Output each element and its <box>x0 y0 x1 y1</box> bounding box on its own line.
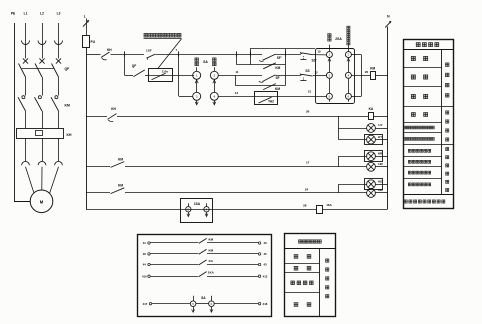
aux contact KA <box>199 260 207 265</box>
2SA tie vertical <box>361 55 363 97</box>
aux row KM wire right <box>207 242 258 244</box>
button SF (local start) <box>263 75 276 82</box>
svg-text:KA: KA <box>369 107 374 111</box>
KM main contact L1 <box>22 96 25 99</box>
remote lamp box HY2 <box>365 135 383 145</box>
QF pole contact L3 <box>52 64 59 78</box>
wire lamp HR1 to N <box>375 156 387 158</box>
svg-text:KH: KH <box>107 48 112 52</box>
svg-text:41: 41 <box>143 241 147 245</box>
svg-text:SF': SF' <box>277 56 282 60</box>
wire L2 top drop <box>42 23 44 44</box>
svg-text:KM: KM <box>208 237 213 241</box>
mode table row line y=194 full <box>403 194 453 196</box>
lamp HY2 <box>367 135 376 144</box>
svg-text:11: 11 <box>235 70 239 74</box>
2SA stub below col2 <box>348 99 350 102</box>
svg-text:KM: KM <box>370 67 375 71</box>
left control rail <box>86 48 88 210</box>
QF pole contact L2 <box>35 64 42 78</box>
SA stub above col a <box>196 67 198 71</box>
svg-text:L: L <box>84 14 86 18</box>
SA arrow col b <box>213 80 216 83</box>
KM main contact L2 <box>38 96 41 99</box>
wire 11: SA contact2 to SF <box>218 75 262 77</box>
wire row3 left <box>86 166 110 168</box>
wire row2 left <box>86 116 107 118</box>
lamp HY1 <box>367 124 376 133</box>
SA contact 2 <box>210 71 218 79</box>
wire L1 top drop <box>25 23 27 44</box>
signal table header text <box>298 240 301 243</box>
group right vertical <box>285 49 287 86</box>
wire PE to motor <box>14 201 30 203</box>
remote lamp box HR1 <box>365 151 383 162</box>
svg-text:SA: SA <box>203 60 208 64</box>
svg-text:17: 17 <box>306 161 310 165</box>
signal table row line 2 <box>284 272 319 274</box>
mode table row7 text <box>408 149 411 152</box>
aux row SA wire left <box>152 303 191 305</box>
aux row KA wire left <box>150 264 198 266</box>
wire lamp HR2 to N <box>375 166 387 168</box>
contact KM holding (remote) <box>263 63 276 69</box>
svg-text:KM: KM <box>275 66 280 70</box>
mode table bottom row text <box>404 200 407 203</box>
QF aux branch vertical <box>124 54 126 75</box>
svg-text:QF: QF <box>65 67 70 71</box>
QF linkage bar <box>22 68 54 70</box>
wire lamp HY1 to N <box>375 128 387 130</box>
wire L1 breaker to contactor <box>25 77 27 96</box>
svg-text:45: 45 <box>263 252 267 256</box>
wire lamp HY2 to N <box>375 139 387 141</box>
button SF' (remote start) on rail <box>263 54 276 60</box>
top control rail segment 5 <box>313 54 327 56</box>
coil KM <box>371 72 376 80</box>
2SA header label col2 <box>347 26 350 29</box>
remote group bypass wire <box>250 48 315 50</box>
QF aux contact <box>125 75 134 77</box>
aux SA stub below 5 <box>193 307 195 312</box>
damper box YA2 <box>255 92 278 105</box>
wire L2 breaker to contactor <box>42 77 44 96</box>
selector 2SA box <box>316 49 355 104</box>
2SA contact 2 <box>345 52 351 58</box>
wire row4 left <box>86 192 110 194</box>
aux row KM right terminal <box>258 253 260 255</box>
wire 14: SA contact4 to YA2 <box>218 96 254 98</box>
breaker stab L1 <box>22 41 30 45</box>
2SA stub above col2 <box>348 45 350 52</box>
aux contact 1KA <box>199 272 207 277</box>
wire KM coil to N rail <box>375 75 387 77</box>
wire 21: YA2 to 2SA contact 5 <box>277 96 326 98</box>
svg-text:43: 43 <box>263 263 267 267</box>
svg-text:SF: SF <box>275 76 279 80</box>
svg-text:HG: HG <box>378 188 383 192</box>
signal table row3 text <box>291 281 295 285</box>
aux contact box frame <box>138 235 272 317</box>
1SA stub above 5 <box>188 203 190 206</box>
svg-text:L3: L3 <box>57 12 61 16</box>
svg-text:FU: FU <box>91 40 96 44</box>
aux SA stub above 5 <box>193 296 195 301</box>
motor stab L1 <box>22 161 30 165</box>
svg-text:KH: KH <box>111 107 116 111</box>
SA contact 4 <box>210 92 218 100</box>
motor stab L3 <box>55 161 63 165</box>
wire L2 stab to breaker <box>42 45 44 59</box>
wire PE vertical <box>14 23 16 201</box>
bottom rail left segment <box>86 209 316 211</box>
aux SA contact 5 <box>190 301 196 307</box>
SA stub below col b <box>214 100 216 104</box>
mode table row1 text <box>411 56 415 60</box>
lamp HR1 <box>367 152 376 161</box>
time relay box t10s <box>149 69 173 82</box>
aux SA stub below 6 <box>211 307 213 312</box>
breaker stab L3 <box>55 41 63 45</box>
svg-text:410: 410 <box>142 274 147 278</box>
SA contact 1 <box>193 71 201 79</box>
mode table right col split 1 <box>441 106 453 108</box>
selector 1SA box <box>181 199 213 223</box>
mode table row2 text <box>411 75 415 79</box>
wire v2 corner to SA contact 3 <box>179 96 192 98</box>
wire L1 contactor to overload <box>25 111 27 129</box>
thermal overload KH box <box>17 129 64 139</box>
fuse FU <box>83 36 90 48</box>
svg-text:SA: SA <box>201 296 206 300</box>
svg-text:21: 21 <box>308 90 312 94</box>
svg-text:L1: L1 <box>24 12 28 16</box>
signal table frame <box>285 234 336 317</box>
wire L2 overload to motor stab <box>42 139 44 162</box>
wire lamp HG1 to N <box>375 184 387 186</box>
mode table row8 text <box>408 160 411 163</box>
remote lamp box HG1 <box>365 179 383 190</box>
signal table row1 text <box>294 255 298 259</box>
signal table row4 text <box>294 303 298 307</box>
wire through time relay to SA1 <box>148 75 194 77</box>
signal table row line 1 <box>284 263 319 265</box>
button SS (local stop) <box>300 73 303 75</box>
mode table right col split 2 <box>441 144 453 146</box>
svg-text:46: 46 <box>143 252 147 256</box>
contact KM aux row3 <box>111 162 125 168</box>
wire L1 overload to motor stab <box>25 139 27 162</box>
aux row SA wire right <box>214 303 258 305</box>
lamp riser row2 <box>338 116 340 140</box>
lamp HG2 <box>367 189 376 198</box>
wire row3 main <box>125 166 367 168</box>
svg-text:418: 418 <box>263 302 268 306</box>
svg-text:40: 40 <box>263 241 267 245</box>
aux SA contact 6 <box>209 301 215 307</box>
mode table row line y=144.9 <box>403 144 441 146</box>
svg-text:KH: KH <box>67 133 72 137</box>
N feeder isolating slash <box>385 22 390 27</box>
svg-text:HG: HG <box>378 180 383 184</box>
aux SA wire mid <box>196 303 209 305</box>
junction tick x=236.7 <box>236 51 238 56</box>
svg-text:44: 44 <box>143 263 147 267</box>
2SA contact 3 <box>326 72 332 78</box>
QF pole contact L1 <box>19 64 26 78</box>
signal table row2 text <box>294 266 298 270</box>
svg-text:KM: KM <box>118 184 123 188</box>
KM remote branch vertical <box>236 54 238 65</box>
wire L3 breaker to contactor <box>58 77 60 96</box>
mode table header text <box>416 43 420 47</box>
mode table row line y=106.9 <box>403 106 441 108</box>
wire L label to fuse <box>86 19 88 36</box>
svg-text:1SA: 1SA <box>194 202 201 206</box>
mode table row line y=156.6 <box>403 156 441 158</box>
KM remote branch wire <box>237 64 286 66</box>
svg-text:20: 20 <box>365 70 369 74</box>
mode table vcol text 3 <box>446 147 449 150</box>
aux row KA wire right <box>207 264 258 266</box>
1SA contact 5 <box>186 207 191 212</box>
SA stub mid col b <box>214 80 216 93</box>
junction tick x=285.5 <box>285 51 287 56</box>
svg-text:L2: L2 <box>40 12 44 16</box>
2SA stub above col1 <box>329 45 331 52</box>
2SA contact 4 <box>345 72 351 78</box>
wire motor lead left <box>26 167 34 193</box>
KM holding branch vertical (local) <box>235 75 237 85</box>
top control rail segment 1 <box>86 54 101 56</box>
wire L2 contactor to overload <box>42 111 44 129</box>
aux row KM right terminal <box>258 242 260 244</box>
wire motor lead mid <box>41 167 43 190</box>
QF pole terminal X L2 <box>39 58 44 63</box>
signal table header rule <box>284 248 335 250</box>
rail-to-SA branch vertical v2 <box>178 54 180 96</box>
mode table row3 text <box>411 94 415 98</box>
wire lamp HG2 to N <box>375 192 387 194</box>
mode table row line y=122.1 <box>403 122 441 124</box>
KM main contact L3 <box>55 96 58 99</box>
aux contact KM <box>199 238 207 243</box>
L feeder isolating slash <box>83 21 88 26</box>
svg-text:413: 413 <box>263 274 268 278</box>
wire L3 top drop <box>58 23 60 44</box>
mode table outer frame <box>404 40 454 209</box>
1SA stub below 5 <box>188 212 190 216</box>
wire L3 overload to motor stab <box>58 139 60 162</box>
SA position label col1 <box>195 58 199 62</box>
1SA stub below 6 <box>206 212 208 216</box>
wire to lamp HG1 <box>338 184 366 186</box>
svg-text:SS': SS' <box>311 59 316 63</box>
thermal contact KH on top rail <box>101 52 110 58</box>
junction tick x=124.5 <box>124 51 126 56</box>
svg-text:HY: HY <box>378 135 382 139</box>
wire to lamp HY1 <box>338 128 366 130</box>
aux contact KM <box>199 249 207 254</box>
signal table vcol text <box>326 259 329 262</box>
button SS' (remote stop) on rail <box>300 52 303 54</box>
mode table row line y=178.3 <box>403 178 441 180</box>
svg-text:1SF: 1SF <box>146 49 152 53</box>
SA contact 3 <box>193 92 201 100</box>
wire to lamp HY2 <box>338 139 366 141</box>
mode table row line y=86.4 <box>403 86 441 88</box>
wire motor lead right <box>50 167 59 194</box>
signal table row line 3 <box>284 292 319 294</box>
svg-text:110s: 110s <box>162 70 169 74</box>
annotation pointer line <box>158 39 182 69</box>
SA stub above col b <box>214 67 216 71</box>
2SA contact 6 <box>345 93 351 99</box>
mode table header rule <box>403 49 453 51</box>
lamp riser row3 <box>338 156 340 167</box>
wire through YA2 box <box>255 96 278 98</box>
2SA stub mid2 col1 <box>329 78 331 94</box>
contact KM aux row4 <box>111 188 125 194</box>
wire KA coil to N rail <box>374 116 388 118</box>
motor stab L2 <box>38 161 46 165</box>
lamp HR2 <box>367 162 376 171</box>
SA position label col2 <box>213 58 217 62</box>
SA stub mid col a <box>196 80 198 93</box>
2SA contact 1 <box>326 52 332 58</box>
svg-text:QF: QF <box>132 64 136 68</box>
annotation text (tunnel fan series point) <box>144 33 148 37</box>
SA arrow col a <box>195 80 198 83</box>
KM holding branch wire (local) <box>235 85 285 87</box>
bottom rail right segment <box>322 209 388 211</box>
svg-text:2SA: 2SA <box>335 37 342 41</box>
svg-text:417: 417 <box>143 302 148 306</box>
aux SA stub above 6 <box>211 296 213 301</box>
svg-text:HY: HY <box>378 123 382 127</box>
svg-text:KM: KM <box>208 248 213 252</box>
svg-text:YA2: YA2 <box>268 100 274 104</box>
contact KM holding (local) <box>263 84 276 90</box>
aux row KM wire right <box>207 253 258 255</box>
wire L3 contactor to overload <box>58 111 60 129</box>
wire row2 main <box>117 116 368 118</box>
top control rail segment 3 <box>156 54 263 56</box>
signal table divider <box>319 249 321 317</box>
mode table row6 text <box>404 137 407 140</box>
wire 20: 2SA to KM coil <box>351 75 370 77</box>
mode table vcol text 2 <box>446 111 449 114</box>
motor M <box>30 190 53 213</box>
aux row KM wire left <box>150 253 198 255</box>
1SA contact 6 <box>204 207 209 212</box>
svg-text:1KA: 1KA <box>208 271 215 275</box>
lamp riser row4 <box>338 184 340 193</box>
2SA stub mid1 col2 <box>348 57 350 72</box>
aux row 1KA wire left <box>150 276 198 278</box>
aux row SA right terminal <box>258 303 260 305</box>
QF pole terminal X L3 <box>56 58 61 63</box>
2SA stub below col1 <box>329 99 331 102</box>
annotation underline <box>144 38 182 40</box>
QF pole terminal X L1 <box>23 58 28 63</box>
mode table row9 text <box>408 171 411 174</box>
svg-text:M: M <box>40 199 44 204</box>
mode table row10 text <box>408 183 411 186</box>
top control rail segment 4 <box>276 54 301 56</box>
2SA tie wire row1 <box>351 54 361 56</box>
2SA contact 5 <box>326 93 332 99</box>
svg-text:16A: 16A <box>326 203 332 207</box>
mode table row line y=167.0 <box>403 166 441 168</box>
mode table row line y=132.9 <box>403 132 441 134</box>
right control rail N <box>387 27 389 210</box>
svg-text:26: 26 <box>306 110 310 114</box>
wire L1 stab to breaker <box>25 45 27 59</box>
mode table row4 text <box>411 113 415 117</box>
svg-text:PE: PE <box>11 12 15 16</box>
aux row 1KA right terminal <box>258 275 260 277</box>
aux row KA right terminal <box>258 263 260 265</box>
svg-text:24: 24 <box>305 187 309 191</box>
wire SF to SS <box>276 75 301 77</box>
2SA stub mid1 col1 <box>329 57 331 72</box>
lamp HG1 <box>367 180 376 189</box>
contact 1SF on top rail <box>147 54 156 58</box>
svg-text:SS: SS <box>305 69 309 73</box>
svg-text:KM: KM <box>118 157 123 161</box>
aux row 1KA wire right <box>207 276 258 278</box>
mode table vcol text 1 <box>445 63 449 67</box>
2SA stub mid2 col2 <box>348 78 350 94</box>
junction tick x=179 <box>178 51 180 56</box>
mode table row line y=67.6 <box>403 67 441 69</box>
wire SS to 2SA contact 3 <box>313 75 327 77</box>
svg-text:KM: KM <box>65 104 70 108</box>
breaker stab L2 <box>38 41 46 45</box>
svg-text:KM: KM <box>275 87 280 91</box>
mode table row5 text <box>404 126 407 129</box>
wire row4 main <box>125 192 367 194</box>
svg-text:14: 14 <box>235 91 239 95</box>
SA stub below col a <box>196 100 198 104</box>
2SA tie wire row3 <box>351 96 361 98</box>
wire L3 stab to breaker <box>58 45 60 59</box>
thermal contact KH row2 <box>108 114 117 120</box>
1SA stub above 6 <box>206 203 208 206</box>
bypass left vertical <box>250 49 252 65</box>
svg-text:15: 15 <box>317 50 321 54</box>
2SA header label col1 <box>328 34 331 37</box>
wire to lamp HR1 <box>338 156 366 158</box>
mode table inner column divider <box>441 49 443 194</box>
svg-text:12: 12 <box>314 70 318 74</box>
aux row KM wire left <box>150 242 198 244</box>
top control rail segment 2 <box>111 54 145 56</box>
junction tick x=250.1 <box>250 51 252 56</box>
svg-text:28: 28 <box>303 203 307 207</box>
fuse 16A <box>317 206 323 214</box>
coil KA <box>369 113 374 120</box>
